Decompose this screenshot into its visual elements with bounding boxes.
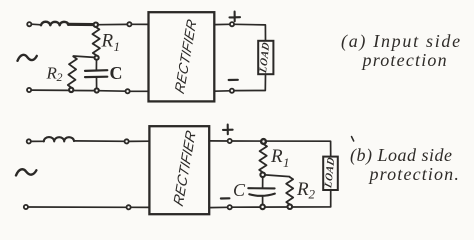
node C bottom (a) [95,88,99,92]
junction R2 bottom (a) [69,88,73,92]
wire terminal to rectifier bottom (a) [130,90,149,92]
resistor R1 (a) [92,27,100,55]
bottom wire (b) [28,206,126,208]
minus sign (a) [229,79,238,81]
stray mark [352,137,354,142]
AC source symbol (b) [16,169,36,175]
wire + terminal to load corner (a) [234,24,265,41]
output wire + (b) [209,140,227,142]
wire node to R2 top (b) [265,175,290,177]
input terminal top-left (a) [27,22,31,26]
load box (b) [323,157,338,190]
output wire - rectifier to terminal (b) [209,206,227,208]
bottom wire mid segment (a) [73,90,94,92]
terminal on bottom wire before rectifier (a) [126,89,130,93]
capacitor C (a) [95,60,97,70]
svg-text:protection: protection [361,50,448,70]
wire inductor to node (a), heavy stroke [68,23,94,26]
svg-text:(a) Input side: (a) Input side [341,31,462,52]
input terminal bottom-left (a) [27,88,31,92]
bottom wire left segment (a) [31,89,69,91]
output wire - to rectifier (a) [214,90,229,92]
terminal on top wire before rectifier (a) [127,22,131,26]
resistor R1 (b) [259,144,267,172]
junction node R2 bottom (b) [288,204,293,209]
inductor (a) [41,22,69,25]
svg-text:C: C [110,63,123,83]
wire terminal to rectifier (b) [129,140,150,142]
svg-text:(b) Load side: (b) Load side [350,145,453,166]
output terminal + (a) [230,22,234,26]
input terminal top-left (b) [27,139,31,143]
wire inductor to terminal (b) [74,140,125,142]
wire terminal to rectifier bottom (b) [131,206,150,208]
wire terminal to rectifier (a) [132,23,149,25]
resistor R2 (a) [68,56,77,87]
inductor (b) [44,137,74,141]
load box (a) [258,41,273,74]
plus sign (b) [223,125,233,135]
terminal on bottom wire before rectifier (b) [127,205,131,209]
rectifier block (a) [149,12,215,101]
terminal on top wire before rectifier (b) [125,139,129,143]
wire node to terminal (a) [98,23,127,25]
svg-text:2: 2 [309,187,316,202]
minus sign (b) [221,197,230,199]
output terminal - (a) [230,89,234,93]
plus sign (a) [230,12,241,22]
output terminal - (b) [228,205,232,209]
wire terminal to inductor (a) [32,23,42,26]
bottom wire to terminal (a) [99,90,125,93]
resistor R2 (b) [286,177,293,204]
junction node top of R1 (a) [94,23,98,27]
junction node R1 bottom / C top (b) [260,173,265,178]
output wire + (a) [214,23,229,25]
svg-text:R: R [101,31,114,52]
capacitor C (b) [262,177,264,188]
output terminal + (b) [228,139,232,143]
svg-text:2: 2 [57,70,63,84]
AC source symbol (a) [18,55,37,61]
input terminal bottom-left (b) [24,205,28,209]
wire load to minus terminal (a) [234,74,265,90]
node between R1 and C (a) [95,56,99,60]
wire node to R2 top (a) [73,56,94,57]
svg-text:1: 1 [283,155,290,170]
wire terminal to inductor (b) [31,140,44,142]
rectifier block (b) [149,126,209,214]
svg-text:1: 1 [114,39,121,54]
junction node C bottom (b) [260,205,265,210]
svg-text:C: C [233,180,246,200]
svg-text:protection.: protection. [368,164,460,184]
junction node top of R1 (b) [261,139,266,144]
bottom wire - to load corner (b) [232,190,331,207]
svg-text:R: R [270,146,283,167]
svg-text:R: R [296,179,309,200]
top wire + to load corner (b) [232,141,331,157]
